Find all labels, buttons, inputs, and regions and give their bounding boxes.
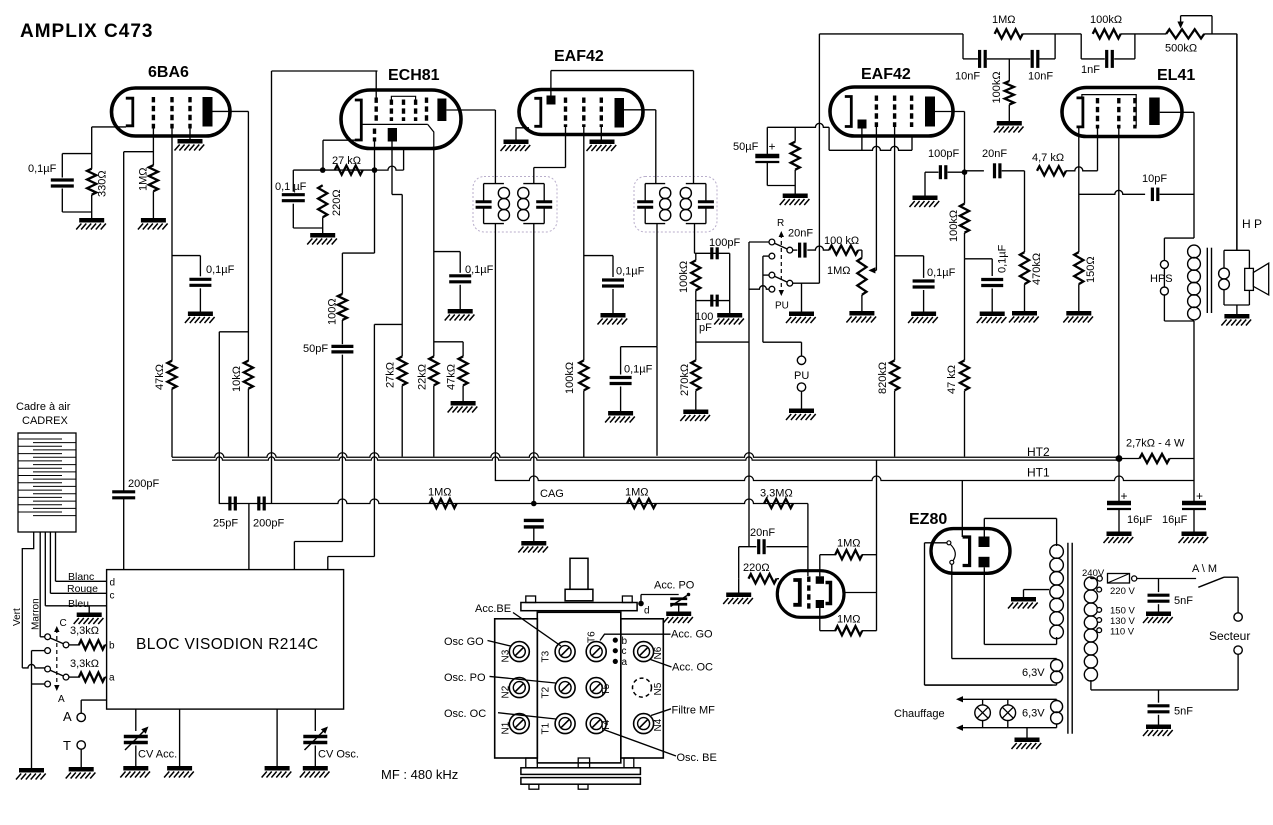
- capacitor 50pF osc: [331, 345, 353, 348]
- wire 50uF bottom: [766, 162, 768, 186]
- wire 6BA6 g3 to ground: [189, 129, 191, 140]
- svg-text:CADREX: CADREX: [22, 415, 69, 427]
- wire EZ80 anode2 to transformer: [983, 567, 985, 644]
- ground speaker: [1224, 314, 1249, 319]
- wire 6,3V-2 to ground: [1026, 728, 1028, 738]
- svg-text:Osc. BE: Osc. BE: [677, 752, 717, 764]
- wire cadre Vert: [22, 532, 33, 668]
- svg-text:Rouge: Rouge: [67, 583, 98, 595]
- svg-text:BLOC VISODION R214C: BLOC VISODION R214C: [136, 636, 318, 653]
- tube V4 EAF42 diode anode: [858, 120, 867, 129]
- svg-text:b: b: [109, 641, 115, 652]
- svg-text:N3: N3: [501, 649, 512, 662]
- wire IF2 primary 0,1uF branch: [621, 346, 657, 348]
- ground 150R: [1066, 311, 1091, 316]
- wire 1nF right: [1114, 58, 1135, 60]
- svg-text:220Ω: 220Ω: [743, 562, 770, 574]
- IF2 secondary tank: [686, 183, 706, 185]
- trimmer Acc PO: [670, 597, 687, 600]
- wire heater line bottom: [958, 727, 1057, 729]
- terminal T earth: [77, 741, 85, 749]
- svg-text:330Ω: 330Ω: [97, 170, 109, 197]
- wire 1nF bridge: [1080, 34, 1082, 59]
- tube V1 6BA6 grid g1: [152, 97, 155, 129]
- svg-text:10nF: 10nF: [955, 71, 980, 83]
- wire 100k to HT2: [583, 390, 585, 457]
- ground 330R: [79, 218, 104, 223]
- rotary terminal T1: [555, 714, 575, 734]
- capacitor 10pF feedback: [1151, 188, 1154, 202]
- tube V2 ECH81 grid g4: [414, 100, 417, 122]
- svg-text:5nF: 5nF: [1174, 706, 1193, 718]
- ground EAF42 cathode: [504, 139, 529, 144]
- ground 100pF: [913, 195, 938, 200]
- svg-text:CV Acc.: CV Acc.: [138, 749, 177, 761]
- wire 3,3k to bloc a: [105, 676, 107, 678]
- wire upper anode to 1M: [819, 555, 821, 577]
- output transformer primary winding: [1188, 245, 1201, 258]
- terminal PU upper: [797, 356, 805, 364]
- wire screen to 47k: [434, 341, 463, 343]
- svg-text:220 V: 220 V: [1110, 586, 1135, 597]
- junction dot grid node: [962, 169, 968, 175]
- wire tone to pot: [1121, 33, 1167, 35]
- wire 5nF2 ground: [1158, 715, 1160, 725]
- transformer 6,3V winding 2: [1056, 699, 1058, 701]
- rotary block right section: [621, 619, 664, 758]
- wire plate branch to osc line: [219, 331, 248, 333]
- resistor 220R ECH81 cathode: [318, 185, 327, 217]
- switch contact C3: [769, 253, 775, 259]
- svg-text:Secteur: Secteur: [1209, 629, 1250, 643]
- transformer 6,3V winding 1: [1056, 659, 1058, 660]
- switch contact C1: [769, 239, 775, 245]
- svg-text:A: A: [58, 694, 65, 705]
- wire 0,1uF top: [293, 169, 322, 171]
- wire 0,1uF bottom: [292, 204, 294, 228]
- svg-text:1nF: 1nF: [1081, 64, 1100, 76]
- wire bloc gnd lead 2: [276, 709, 278, 766]
- ground 0,1uF EAF42-2: [911, 311, 936, 316]
- wire C5 to ground: [793, 282, 802, 284]
- svg-text:1MΩ: 1MΩ: [428, 487, 452, 499]
- wire 220R to ground: [738, 579, 740, 593]
- wire HT1 rail: [495, 476, 1194, 481]
- ground EAF42 g3: [590, 139, 615, 144]
- pointer Acc.BE to T3: [513, 613, 561, 647]
- capacitor 5nF mains 2: [1148, 704, 1170, 707]
- resistor 470k grid leak: [1020, 252, 1029, 284]
- svg-text:T6: T6: [587, 631, 598, 643]
- ground 1M pot: [849, 311, 874, 316]
- ground Bleu: [77, 612, 102, 617]
- svg-text:470kΩ: 470kΩ: [1031, 253, 1043, 285]
- wire HV center tap: [1024, 589, 1050, 591]
- wire AM to secteur: [1237, 577, 1239, 613]
- pointer Osc GO to N3: [488, 641, 511, 647]
- rotary terminal N5 dashed: [633, 678, 652, 697]
- ground 6BA6 g3: [178, 139, 203, 144]
- wire tone top: [819, 33, 963, 35]
- transformer HV winding: [1056, 518, 1058, 546]
- svg-text:0,1µF: 0,1µF: [927, 267, 956, 279]
- svg-text:130 V: 130 V: [1110, 616, 1135, 627]
- wire cadre Marron: [39, 532, 41, 637]
- resistor 820k screen feed: [890, 360, 899, 390]
- svg-text:T: T: [63, 738, 71, 753]
- fuse link: [1108, 574, 1130, 584]
- capacitor 0,1uF ECH81 cathode: [282, 193, 305, 196]
- tube V2 ECH81 heptode cathode: [355, 100, 362, 140]
- tube V4 EAF42 envelope: [830, 87, 953, 136]
- wire top osc grid line: [272, 70, 378, 72]
- svg-text:ECH81: ECH81: [388, 67, 440, 84]
- capacitor 100pF detector top: [710, 247, 713, 259]
- wire 3,3k to bloc b: [105, 644, 107, 646]
- wire HPS bracket: [1163, 238, 1165, 260]
- tube V2 ECH81 grid g1: [375, 98, 378, 122]
- wire 6BA6 g1 down: [152, 129, 154, 166]
- wire 10k to HT2: [247, 389, 249, 457]
- wiper 500k: [1180, 16, 1182, 23]
- wire 100k to pot: [858, 249, 862, 251]
- wire 6BA6 anode lead: [213, 110, 249, 112]
- tube V7 EZ80 filament: [947, 541, 951, 545]
- tube V3 EAF42 anode: [615, 98, 625, 128]
- switch contact A6: [45, 681, 51, 687]
- svg-text:C: C: [60, 618, 67, 629]
- block BLOC VISODION R214C: [107, 570, 344, 710]
- capacitor 0,1uF g2 bypass: [189, 278, 211, 281]
- tube V3 EAF42 diode anode: [547, 96, 556, 105]
- wire d to trimmer: [640, 595, 642, 604]
- wire 47k to HT2: [964, 391, 966, 457]
- wire cap top: [62, 153, 91, 155]
- ground 50uF: [783, 193, 808, 198]
- wire 4,7k to g1 with hump: [1066, 167, 1098, 171]
- tube V6 cathode left: [793, 580, 800, 605]
- capacitor 0,1uF EL41 input: [981, 278, 1003, 281]
- wire 27k to HT2: [401, 386, 403, 457]
- output transformer secondary winding: [1219, 268, 1230, 279]
- svg-text:100pF: 100pF: [709, 237, 740, 249]
- resistor 1M tone: [995, 29, 1023, 38]
- wire CAG cap to ground: [533, 527, 535, 541]
- wire g2 to 0,1uF: [584, 255, 613, 257]
- transformer core: [1067, 543, 1069, 734]
- tube V5 EL41 grid g3: [1133, 98, 1136, 129]
- svg-text:Osc GO: Osc GO: [444, 636, 484, 648]
- wire screen to 0,1uF: [434, 251, 460, 253]
- wire ECH81 g1 top: [375, 71, 377, 98]
- IF2 secondary bottom: [694, 224, 696, 254]
- svg-text:Blanc: Blanc: [68, 571, 94, 583]
- rotary terminal T5: [586, 678, 606, 698]
- wire ground line down: [31, 651, 33, 768]
- svg-text:T4: T4: [601, 719, 612, 731]
- svg-text:22kΩ: 22kΩ: [417, 364, 429, 390]
- mains tap 130V: [1097, 618, 1102, 623]
- ground 1M: [141, 218, 166, 223]
- wire cadre Bleu: [44, 532, 46, 606]
- wire 1M lower right: [820, 630, 836, 632]
- svg-text:+: +: [769, 140, 776, 154]
- capacitor 0,1uF ECH81 screen: [449, 274, 471, 277]
- potentiometer 500k tone: [1166, 29, 1204, 38]
- wire bloc CV Acc lead: [135, 709, 137, 731]
- wire EAF42-2 anode lead: [935, 111, 965, 113]
- wire EAF42-2 g1 down: [875, 127, 877, 270]
- tube V2 ECH81 grid g3: [402, 100, 405, 122]
- wire 0,1uF screen to ground: [459, 285, 461, 309]
- wire EAF42 diode top: [550, 71, 552, 96]
- resistor 47k g2 feed: [167, 361, 176, 389]
- tube V2 ECH81 envelope: [341, 90, 461, 149]
- ground 0,1uF EAF42: [601, 313, 626, 318]
- wire osc A line below CAG: [294, 541, 342, 543]
- svg-text:d: d: [110, 578, 116, 589]
- node c dot: [613, 648, 618, 653]
- svg-text:T1: T1: [541, 722, 552, 734]
- wire C3-C4 tie: [763, 255, 769, 257]
- wire g2 bypass branch: [895, 255, 924, 257]
- wire osc coil branch: [374, 323, 402, 325]
- ground 47k ECH81: [451, 401, 476, 406]
- output transformer core: [1206, 248, 1208, 313]
- junction dot HT2: [1116, 455, 1123, 462]
- wire 150R to ground: [1078, 284, 1080, 311]
- wire 5nF1 top: [1158, 579, 1160, 593]
- mains tap out: [1132, 576, 1137, 581]
- svg-text:CV Osc.: CV Osc.: [318, 749, 359, 761]
- ground switch C5: [789, 311, 814, 316]
- wire secteur return: [1237, 654, 1239, 690]
- tube V7 EZ80 envelope: [931, 529, 1010, 574]
- rotary terminal T2: [555, 678, 575, 698]
- wire triode grid down: [374, 142, 376, 171]
- switch blade R upper: [775, 243, 788, 249]
- wire EL41 cathode down: [1078, 128, 1080, 252]
- tube V4 EAF42 grid g2: [893, 96, 896, 128]
- capacitor 200pF antenna: [112, 490, 135, 493]
- capacitor 16uF filter 1: [1107, 501, 1131, 506]
- wire 50pF down: [341, 355, 343, 542]
- terminal Secteur bottom: [1234, 646, 1242, 654]
- wire EZ80 filament 1: [925, 542, 947, 544]
- switch A-M blade: [1198, 577, 1224, 587]
- tube V1 6BA6 grid g2: [170, 97, 173, 129]
- transformer mains winding: [1090, 577, 1092, 579]
- wire A terminal to bloc: [80, 700, 82, 713]
- wire 5nF1 ground: [1158, 604, 1160, 611]
- svg-text:2,7kΩ - 4 W: 2,7kΩ - 4 W: [1126, 438, 1185, 450]
- tube V5 EL41 anode: [1149, 98, 1160, 126]
- tube V1 6BA6 envelope: [112, 88, 231, 136]
- IF2 secondary top from diode: [693, 71, 695, 184]
- switch contact A4: [45, 666, 51, 672]
- wire 1M to ground: [152, 191, 154, 218]
- ground bloc 2: [265, 766, 290, 771]
- wire 0,1uF g2 to ground: [199, 288, 201, 311]
- wire heater line top: [958, 698, 1057, 700]
- capacitor 50uF cathode: [755, 154, 779, 159]
- resistor 270k det load: [691, 360, 700, 390]
- wire to ground: [991, 289, 993, 312]
- svg-text:Acc. GO: Acc. GO: [671, 629, 713, 641]
- capacitor 25pF osc: [228, 497, 231, 511]
- wire HP feed: [1236, 34, 1238, 250]
- svg-text:Osc. PO: Osc. PO: [444, 672, 486, 684]
- wire CV Acc ground: [135, 746, 137, 767]
- wire EAF42 g2 down: [583, 127, 585, 360]
- resistor 3,3k b: [79, 640, 105, 649]
- mains tap 150V: [1097, 608, 1102, 613]
- svg-text:1MΩ: 1MΩ: [837, 614, 861, 626]
- svg-text:3,3kΩ: 3,3kΩ: [70, 625, 99, 637]
- lamp dial 1: [975, 705, 991, 721]
- pointer Osc OC to T1: [498, 713, 556, 719]
- capacitor 5nF mains 1: [1148, 594, 1170, 597]
- ground 5nF2: [1146, 724, 1171, 729]
- ground 16uF2: [1182, 531, 1207, 536]
- wire EAF42 g3 to ground: [600, 127, 602, 140]
- svg-text:20nF: 20nF: [750, 527, 775, 539]
- wire HT2 to 16uF1: [1118, 459, 1120, 503]
- svg-text:EZ80: EZ80: [909, 511, 947, 528]
- pointer Acc GO to T6: [600, 634, 671, 640]
- wire CV Osc ground: [314, 746, 316, 767]
- wire 47k branch: [964, 259, 966, 361]
- tube V2 ECH81 screen strap: [391, 96, 415, 99]
- wire 100pF right to ground: [729, 253, 731, 313]
- speaker HP voice coil: [1245, 268, 1254, 290]
- wire EZ80 filament 2: [951, 564, 953, 658]
- tube V7 EZ80 cathode: [963, 537, 970, 566]
- wire 1M upper right: [820, 554, 836, 556]
- wire EAF42 cathode to ground: [516, 128, 529, 140]
- svg-text:Marron: Marron: [31, 598, 42, 630]
- tube V4 EAF42 anode: [925, 97, 935, 127]
- svg-text:27kΩ: 27kΩ: [385, 362, 397, 388]
- antenna frame coil CADREX: [18, 433, 76, 532]
- svg-text:16µF: 16µF: [1127, 514, 1153, 526]
- HPS terminal top: [1160, 260, 1168, 268]
- terminal A antenna: [77, 713, 85, 721]
- ground bloc 1: [167, 766, 192, 771]
- svg-text:200pF: 200pF: [128, 478, 159, 490]
- wire radio line down: [748, 242, 750, 547]
- mains tap 220V: [1097, 587, 1102, 592]
- wire bloc gnd lead 1: [179, 709, 181, 766]
- capacitor 20nF AF det: [757, 539, 760, 554]
- wire 200pF antenna to bloc: [123, 499, 125, 570]
- tube V4 EAF42 grid g3: [910, 96, 913, 128]
- svg-text:100kΩ: 100kΩ: [948, 210, 960, 242]
- svg-text:pF: pF: [699, 322, 712, 334]
- svg-text:A \ M: A \ M: [1192, 563, 1217, 575]
- svg-text:0,1µF: 0,1µF: [28, 163, 57, 175]
- tube V1 6BA6 grid g3: [188, 97, 191, 129]
- wire 220R to tube: [777, 578, 780, 580]
- wire ECH81 screen line down: [433, 149, 435, 357]
- ground 5nF1: [1146, 611, 1171, 616]
- mains tap 240V: [1097, 576, 1102, 581]
- wire right cathode out: [844, 592, 877, 594]
- svg-text:Osc. OC: Osc. OC: [444, 708, 486, 720]
- resistor 27k triode anode load: [398, 356, 407, 385]
- wire cadre Blanc: [55, 532, 57, 581]
- tube V5 EL41 beam plates: [1082, 95, 1136, 127]
- IF1 primary tank: [484, 183, 504, 185]
- svg-text:47kΩ: 47kΩ: [154, 364, 166, 390]
- IF transformer MF2 box: [634, 177, 717, 233]
- wire HT2 rail double line: [172, 453, 1119, 458]
- svg-text:3,3kΩ: 3,3kΩ: [70, 658, 99, 670]
- tube V5 EL41 envelope: [1062, 88, 1182, 137]
- svg-text:HT2: HT2: [1027, 445, 1050, 459]
- switch contact C2: [787, 247, 793, 253]
- svg-text:CAG: CAG: [540, 488, 564, 500]
- tube V1 6BA6 cathode: [126, 98, 133, 126]
- wire cathode elbow: [828, 127, 830, 150]
- wire trimmer ground: [678, 605, 680, 612]
- switch contact C4: [769, 272, 775, 278]
- wire C2 to 20nF: [793, 249, 798, 251]
- wire OT rail lower: [1193, 321, 1195, 502]
- IF2 primary bottom: [656, 224, 658, 347]
- wire speaker ground: [1236, 305, 1238, 314]
- ground HV center tap: [1011, 597, 1036, 602]
- resistor 100k anode load: [960, 204, 969, 233]
- wire 470k bias: [1024, 171, 1026, 252]
- wire internal cathode down: [403, 149, 405, 171]
- IF2 primary tank: [645, 183, 665, 185]
- wire 330R to ground: [91, 195, 93, 218]
- resistor 3,3k a: [79, 673, 105, 682]
- svg-text:200pF: 200pF: [253, 518, 284, 530]
- wire C1 to radio line: [749, 241, 769, 243]
- pointer Acc OC to N6: [651, 660, 672, 668]
- svg-text:110 V: 110 V: [1110, 627, 1135, 638]
- wire 100R chain: [341, 253, 343, 294]
- ground CAG cap: [521, 541, 546, 546]
- svg-text:5nF: 5nF: [1174, 595, 1193, 607]
- pointer Filtre MF to N4: [651, 709, 671, 716]
- wire osc grid branch down: [374, 170, 376, 253]
- svg-text:PU: PU: [775, 301, 789, 312]
- svg-text:220Ω: 220Ω: [331, 189, 343, 216]
- svg-text:4,7 kΩ: 4,7 kΩ: [1032, 152, 1064, 164]
- svg-text:H P: H P: [1242, 217, 1262, 231]
- tube V1 6BA6 anode: [203, 97, 213, 127]
- wire A6 to ground line: [32, 683, 45, 685]
- svg-text:100kΩ: 100kΩ: [678, 261, 690, 293]
- svg-text:47kΩ: 47kΩ: [446, 364, 458, 390]
- svg-text:EAF42: EAF42: [861, 66, 911, 83]
- resistor 22k ECH81: [429, 356, 438, 385]
- wire EAF42 anode lead: [624, 109, 656, 111]
- switch contact A5: [63, 674, 69, 680]
- wire 0,1uF EL41 branch: [965, 258, 993, 260]
- speaker HP cone: [1253, 263, 1268, 295]
- svg-text:25pF: 25pF: [213, 518, 238, 530]
- svg-text:a: a: [622, 657, 628, 668]
- rotary mounting plate top: [521, 603, 637, 611]
- svg-text:150 V: 150 V: [1110, 606, 1135, 617]
- resistor 100k detector: [691, 260, 700, 290]
- wire EZ80 anode1 to transformer: [983, 518, 985, 536]
- wire cathode down to 330R: [91, 127, 93, 169]
